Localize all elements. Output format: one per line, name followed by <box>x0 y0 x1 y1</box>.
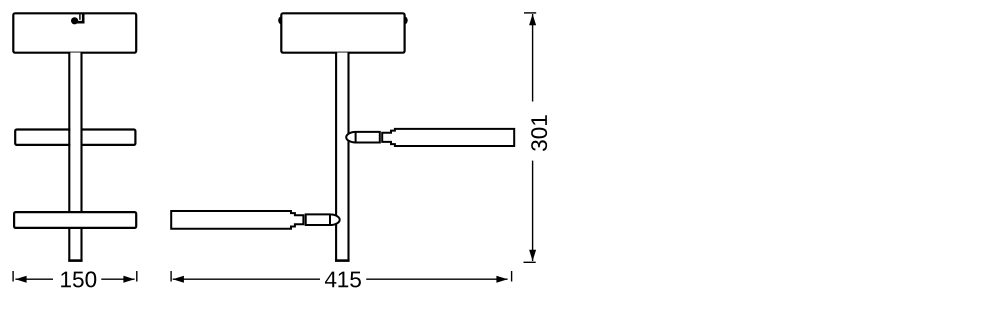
dimension 415 left tick <box>170 271 172 282</box>
dimension 415 left arrow <box>173 276 184 283</box>
dimension 150 label <box>61 271 96 287</box>
dimension 150 right tick <box>136 271 138 282</box>
dimension 301 label <box>531 115 547 151</box>
dimension 301 top tick <box>524 12 536 14</box>
dimension 301 line lower <box>532 161 534 261</box>
dimension 301 line upper <box>532 14 534 102</box>
stem side view <box>335 53 350 261</box>
dimension 415 right arrow <box>496 276 507 283</box>
dimension 301 bottom tick <box>524 261 536 263</box>
cable hook dot <box>71 17 78 24</box>
upper bar front view <box>15 130 135 145</box>
dimension 150 line left <box>15 278 53 280</box>
dimension 415 right tick <box>511 271 513 282</box>
lower arm joint capsule <box>306 214 340 225</box>
lower arm side view <box>171 211 303 229</box>
dimension 150 line right <box>101 278 134 280</box>
canopy front view <box>13 13 136 52</box>
dimension 150 right arrow <box>123 276 134 283</box>
canopy side view <box>281 13 404 52</box>
dimension 301 top arrow <box>529 14 536 25</box>
dimension 415 line right <box>366 278 507 280</box>
canopy side view left screw <box>278 17 284 25</box>
dimension 415 label <box>325 272 361 288</box>
upper arm joint capsule <box>346 132 380 143</box>
canopy side view right screw <box>402 17 408 25</box>
dimension 150 left arrow <box>15 276 26 283</box>
dimension 301 bottom arrow <box>529 250 536 261</box>
upper arm side view <box>382 129 514 146</box>
stem front view <box>68 53 82 261</box>
cable hook bracket <box>79 14 81 20</box>
lower bar front view <box>14 212 136 228</box>
dimension 150 left tick <box>12 271 14 282</box>
dimension 415 line left <box>173 278 320 280</box>
